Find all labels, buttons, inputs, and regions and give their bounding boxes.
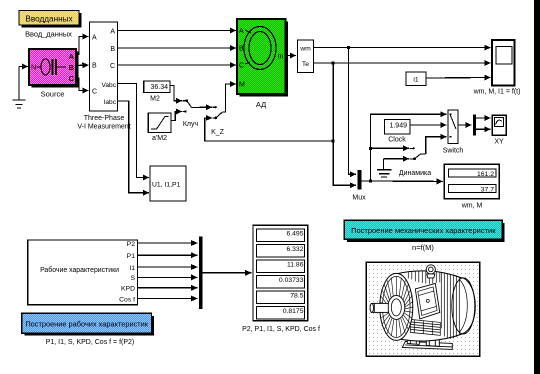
terminal box (415, 283, 440, 319)
svg-text:1.949: 1.949 (389, 123, 407, 130)
svg-text:6.332: 6.332 (286, 246, 303, 253)
display M2 value 36.34 (144, 81, 170, 93)
svg-text:0.03733: 0.03733 (279, 277, 304, 284)
label P2, P1, I1, S, KPD, Cos f (242, 326, 320, 333)
wire Switch to demux (458, 124, 472, 126)
demux bar (before XY) (473, 115, 476, 136)
svg-text:Построение механических характ: Построение механических характеристик (351, 226, 496, 235)
svg-text:Динамика: Динамика (399, 170, 431, 177)
svg-text:S: S (130, 275, 135, 282)
wire wm to scope (314, 47, 491, 49)
svg-text:B: B (92, 63, 97, 70)
wire I1 to scope (426, 77, 491, 80)
wire K_Z output to AD port M (222, 84, 236, 112)
wire Clock to Switch input 2 (410, 124, 447, 126)
svg-text:Cos f: Cos f (119, 296, 135, 303)
svg-text:A: A (69, 52, 75, 61)
wire wm branch down to Mux input 1 (349, 48, 356, 175)
display Clock value 1.949 (385, 120, 411, 135)
svg-text:Three-Phase: Three-Phase (84, 115, 125, 122)
svg-text:Switch: Switch (443, 148, 464, 155)
svg-text:Clock: Clock (388, 137, 406, 144)
label XY (494, 139, 504, 146)
svg-text:A: A (92, 35, 97, 42)
svg-text:АД: АД (256, 100, 266, 109)
motor picture frame (366, 262, 479, 356)
label Kluch (183, 121, 199, 128)
label AD (256, 100, 266, 109)
ground (below source) (13, 67, 26, 109)
svg-text:Vabc: Vabc (101, 82, 116, 89)
svg-text:P2, P1, I1, S, KPD, Cos f: P2, P1, I1, S, KPD, Cos f (242, 326, 320, 333)
svg-text:A: A (239, 28, 244, 35)
svg-text:Ввод_данных: Ввод_данных (25, 30, 72, 39)
svg-text:78.5: 78.5 (290, 293, 303, 300)
block a'M2 (saturation) (148, 113, 171, 133)
wire branch to Dinamika upper input (371, 147, 410, 149)
feet / base (402, 334, 452, 349)
label K_Z (211, 129, 225, 136)
label wm, M (461, 203, 483, 210)
junction on mux output wire (369, 180, 372, 183)
source block (3-phase source, magenta) (29, 49, 79, 88)
Mux (wm,Te) (358, 170, 362, 189)
wire Dinamika output to Switch input 3 (426, 137, 447, 154)
wire Te branch down to Mux input 2 (333, 63, 356, 185)
svg-text:U1, I1,P1: U1, I1,P1 (152, 181, 181, 188)
svg-text:B: B (110, 46, 115, 53)
XY graph block (492, 115, 506, 135)
wire demux to XY input 2 (476, 128, 490, 130)
svg-text:Mux: Mux (352, 195, 366, 202)
svg-text:161.2: 161.2 (477, 171, 494, 178)
label Source (41, 90, 65, 99)
svg-text:n=f(M): n=f(M) (412, 243, 434, 252)
svg-text:K_Z: K_Z (211, 129, 225, 136)
svg-text:0.8175: 0.8175 (283, 308, 304, 315)
svg-text:B: B (69, 63, 75, 72)
label Mux (352, 195, 366, 202)
svg-text:C: C (239, 63, 244, 70)
junction wm branch (347, 46, 350, 49)
label Switch (443, 148, 464, 155)
svg-text:Iabc: Iabc (104, 99, 117, 106)
block I1 (goto tag) (406, 72, 426, 86)
three-phase V-I measurement block (90, 22, 118, 111)
svg-text:V-I Measurement: V-I Measurement (77, 124, 130, 131)
svg-text:i1: i1 (413, 77, 418, 84)
motor drawing (370, 265, 475, 350)
svg-text:Source: Source (41, 90, 65, 99)
label a'M2 (152, 135, 167, 142)
svg-text:C: C (92, 89, 97, 96)
annotation Postroenie rabochikh kharakteristik (blue) (22, 313, 154, 335)
block U1, I1, P1 (150, 166, 186, 201)
svg-text:A: A (110, 29, 115, 36)
wire a'M2 to Kluch lower input (171, 112, 182, 121)
wire ground to Dinamika lower input (384, 158, 410, 160)
wire B measurement to AD (118, 47, 237, 49)
svg-text:wm: wm (299, 46, 311, 53)
svg-text:Клуч: Клуч (183, 121, 199, 128)
body (396, 271, 475, 341)
svg-text:XY: XY (494, 139, 504, 146)
wire C measurement to AD (118, 64, 237, 66)
svg-text:N: N (31, 63, 36, 72)
label Dinamika (399, 170, 431, 177)
label wm, M, I1 = f(t) (473, 89, 521, 96)
wire Te to scope (314, 62, 491, 64)
manual switch Kluch (183, 99, 197, 112)
svg-text:C: C (110, 63, 115, 70)
switch block (448, 110, 458, 144)
body fins (408, 271, 459, 339)
AD induction motor block (green) (237, 19, 288, 97)
demux block wm / Te (298, 40, 314, 73)
ground (Dinamika) (377, 159, 392, 177)
wire Te-branch to K_Z lower input (205, 118, 333, 141)
svg-text:M2: M2 (150, 95, 160, 102)
label P1, I1, S, KPD, Cos f = f(P2) (46, 339, 135, 346)
annotation Ввод данных (yellow) (19, 11, 82, 28)
wire ground to N (19, 66, 28, 68)
svg-text:6.495: 6.495 (286, 231, 303, 238)
svg-text:Te: Te (302, 61, 309, 68)
manual switch Dinamika (410, 147, 426, 160)
label n=f(M) (412, 243, 434, 252)
svg-text:37.7: 37.7 (481, 186, 494, 193)
wire A measurement to AD (118, 30, 237, 32)
eye bolt (426, 265, 435, 278)
svg-text:I1: I1 (129, 265, 135, 272)
svg-text:P1: P1 (127, 253, 136, 260)
svg-text:M: M (239, 82, 245, 89)
wire AD m to wm/Te block (286, 55, 297, 57)
block Rabochie kharakteristiki (28, 240, 138, 305)
junction on branch to Dinamika (369, 147, 372, 150)
junction Te branch (332, 62, 335, 65)
svg-text:Построение рабочих характерист: Построение рабочих характеристик (25, 319, 148, 328)
scope block wm,M,I1 (492, 40, 515, 86)
wire mux-output branch up to Switch input 1 (371, 114, 447, 181)
wire Source C to measurement C (76, 78, 89, 91)
svg-text:wm, M: wm, M (461, 203, 483, 210)
label M2 (150, 95, 160, 102)
wire Source B to measurement B (76, 64, 89, 67)
junction Te / K_Z wire (332, 140, 335, 143)
svg-text:P1, I1, S, KPD, Cos f = f(P2): P1, I1, S, KPD, Cos f = f(P2) (46, 339, 135, 346)
svg-text:Рабочие характеристики: Рабочие характеристики (40, 266, 119, 274)
wire Kluch to K_Z upper input (196, 106, 212, 108)
label Clock (388, 137, 406, 144)
svg-text:11.86: 11.86 (287, 262, 304, 269)
wires P2..Cosf to Mux2 (138, 243, 198, 299)
label Ввод_данных (25, 30, 72, 39)
big display P2..Cosf (253, 225, 308, 320)
svg-text:m: m (278, 54, 284, 61)
wire Vabc to U1,I1,P1 input 1 (118, 84, 150, 178)
front fan cover (380, 273, 413, 340)
annotation Postroenie mekhanicheskikh kharakteristik (cyan) (344, 220, 504, 242)
svg-text:B: B (239, 46, 244, 53)
shaft (370, 303, 388, 312)
wire Source A to measurement A (76, 37, 89, 55)
manual switch K_Z (213, 106, 223, 119)
wire Iabc to U1,I1,P1 input 2 (118, 101, 150, 193)
svg-text:P2: P2 (127, 241, 136, 248)
svg-text:a'M2: a'M2 (152, 135, 167, 142)
wire demux to XY input 1 (476, 117, 490, 119)
wire Mux2 to display (203, 272, 252, 274)
Mux2 bar (199, 237, 203, 309)
label Three-Phase V-I Measurement (77, 115, 130, 131)
svg-text:KPD: KPD (121, 286, 135, 293)
svg-text:Вводданных: Вводданных (25, 15, 72, 24)
svg-text:C: C (69, 74, 75, 83)
window right border bar (534, 0, 540, 374)
wire M2 to Kluch upper input (170, 85, 182, 100)
belly hatch under terminal area (410, 319, 440, 335)
svg-text:36.34: 36.34 (150, 84, 168, 91)
wire Mux output to display wm,M (361, 180, 443, 182)
svg-text:wm, M, I1 = f(t): wm, M, I1 = f(t) (473, 89, 521, 96)
display wm,M values (444, 164, 499, 199)
